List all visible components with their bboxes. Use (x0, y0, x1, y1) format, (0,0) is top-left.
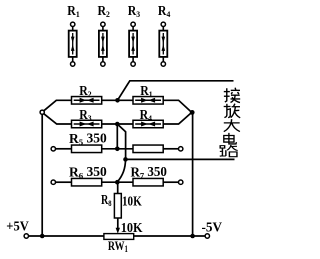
node: right bridge node (190, 110, 195, 115)
label: RW1 (108, 238, 128, 254)
wire: rail A between R2 and R1 (102, 99, 133, 101)
label: Chinese annotation 路 (circuit-2) (220, 145, 238, 157)
wire: rail C right (163, 148, 178, 150)
wire: rail B right to node (diagonal) (163, 113, 190, 124)
wire: vertical link rail B to rail C (116, 124, 118, 149)
node: rail C right terminal (179, 147, 183, 151)
resistor R7 body (133, 178, 163, 186)
resistor R8 label (101, 192, 112, 208)
label: +5V (6, 220, 29, 235)
wire: rail E junction down to R8 (117, 182, 119, 193)
wire: R8 to potentiometer wiper arrow (116, 218, 120, 234)
wire: left node to rail A (diagonal) (44, 100, 72, 110)
svg-text:+5V: +5V (6, 220, 29, 235)
strain gauge R1 (top row) (67, 3, 79, 66)
node: rail C junction with vertical link (115, 147, 120, 152)
resistor R6 body (72, 178, 102, 186)
resistor R1 label (140, 83, 152, 99)
node: rail C left terminal (51, 147, 55, 151)
wire: output line 2 to amplifier (126, 158, 235, 160)
resistor R5 body (72, 145, 102, 153)
label: RW1 value 10K (121, 221, 143, 236)
potentiometer RW1 body (104, 234, 134, 240)
wire: rail C middle (102, 148, 133, 150)
node: rail E left terminal (51, 180, 55, 184)
resistor R3 body (72, 120, 102, 128)
wire: rail A right to node (diagonal) (163, 100, 190, 111)
svg-text:R3: R3 (128, 3, 141, 19)
node: rail A center junction (output tap) (115, 98, 120, 103)
resistor R6 label "R6 350" (69, 164, 107, 181)
svg-text:RW1: RW1 (108, 238, 128, 254)
svg-text:R4: R4 (158, 3, 171, 19)
resistor R2 label (79, 83, 92, 99)
svg-text:10K: 10K (122, 195, 142, 210)
wire: bottom rail right (134, 235, 206, 237)
strain gauge R3 (top row) (128, 3, 141, 66)
svg-text:R1: R1 (67, 3, 79, 19)
wire: tap D down to rail E (117, 159, 125, 181)
label: Chinese annotation 接 (connect) (224, 88, 240, 103)
node: junction left vertical / bottom rail (40, 234, 45, 239)
wire: bottom rail left (29, 235, 104, 237)
node: rail E right terminal (179, 180, 183, 184)
strain gauge R2 (top row) (98, 3, 111, 66)
wire: right vertical (node to bottom rail) (192, 112, 194, 236)
resistor R5 label "R5 350" (69, 130, 107, 147)
label: Chinese annotation 大 (amplify-2) (224, 119, 240, 131)
node: -5V terminal (205, 234, 209, 238)
resistor R5b (right bridge-completion resistor) body (133, 145, 163, 153)
wire: rail B junction to output tap D (117, 124, 125, 159)
wire: rail C left (56, 148, 72, 150)
resistor R3 label (79, 107, 92, 123)
label: -5V (202, 221, 223, 236)
wire: rail E left (56, 181, 72, 183)
node: left bridge excitation node (40, 110, 44, 114)
node: rail E junction to R8 (115, 180, 120, 185)
node: +5V terminal (24, 234, 28, 238)
node: junction right vertical / bottom rail (190, 234, 195, 239)
resistor R4 body (133, 120, 163, 128)
strain gauge R4 (top row) (158, 3, 171, 66)
resistor R4 label (140, 107, 153, 123)
svg-text:-5V: -5V (202, 221, 223, 236)
node: output tap D (123, 157, 128, 162)
node: rail B center junction (115, 122, 120, 127)
wire: output line 1 to amplifier (118, 81, 234, 101)
svg-text:R8: R8 (101, 192, 112, 208)
wire: rail E right (163, 181, 178, 183)
resistor R7 label "R7 350" (131, 164, 168, 181)
wire: rail B between R3 and R4 (102, 123, 133, 125)
label: Chinese annotation 电 (circuit-1) (224, 133, 237, 144)
label: R8 value 10K (122, 195, 142, 210)
wire: left node to rail B (diagonal) (44, 114, 72, 124)
resistor R2 body (72, 97, 102, 105)
label: Chinese annotation 放 (amplify-1) (224, 104, 241, 118)
resistor R1 body (133, 97, 163, 105)
resistor R8 body (114, 194, 121, 219)
wire: left vertical (node to bottom rail) (41, 114, 43, 236)
svg-text:R2: R2 (98, 3, 111, 19)
wire: rail E middle (102, 181, 133, 183)
